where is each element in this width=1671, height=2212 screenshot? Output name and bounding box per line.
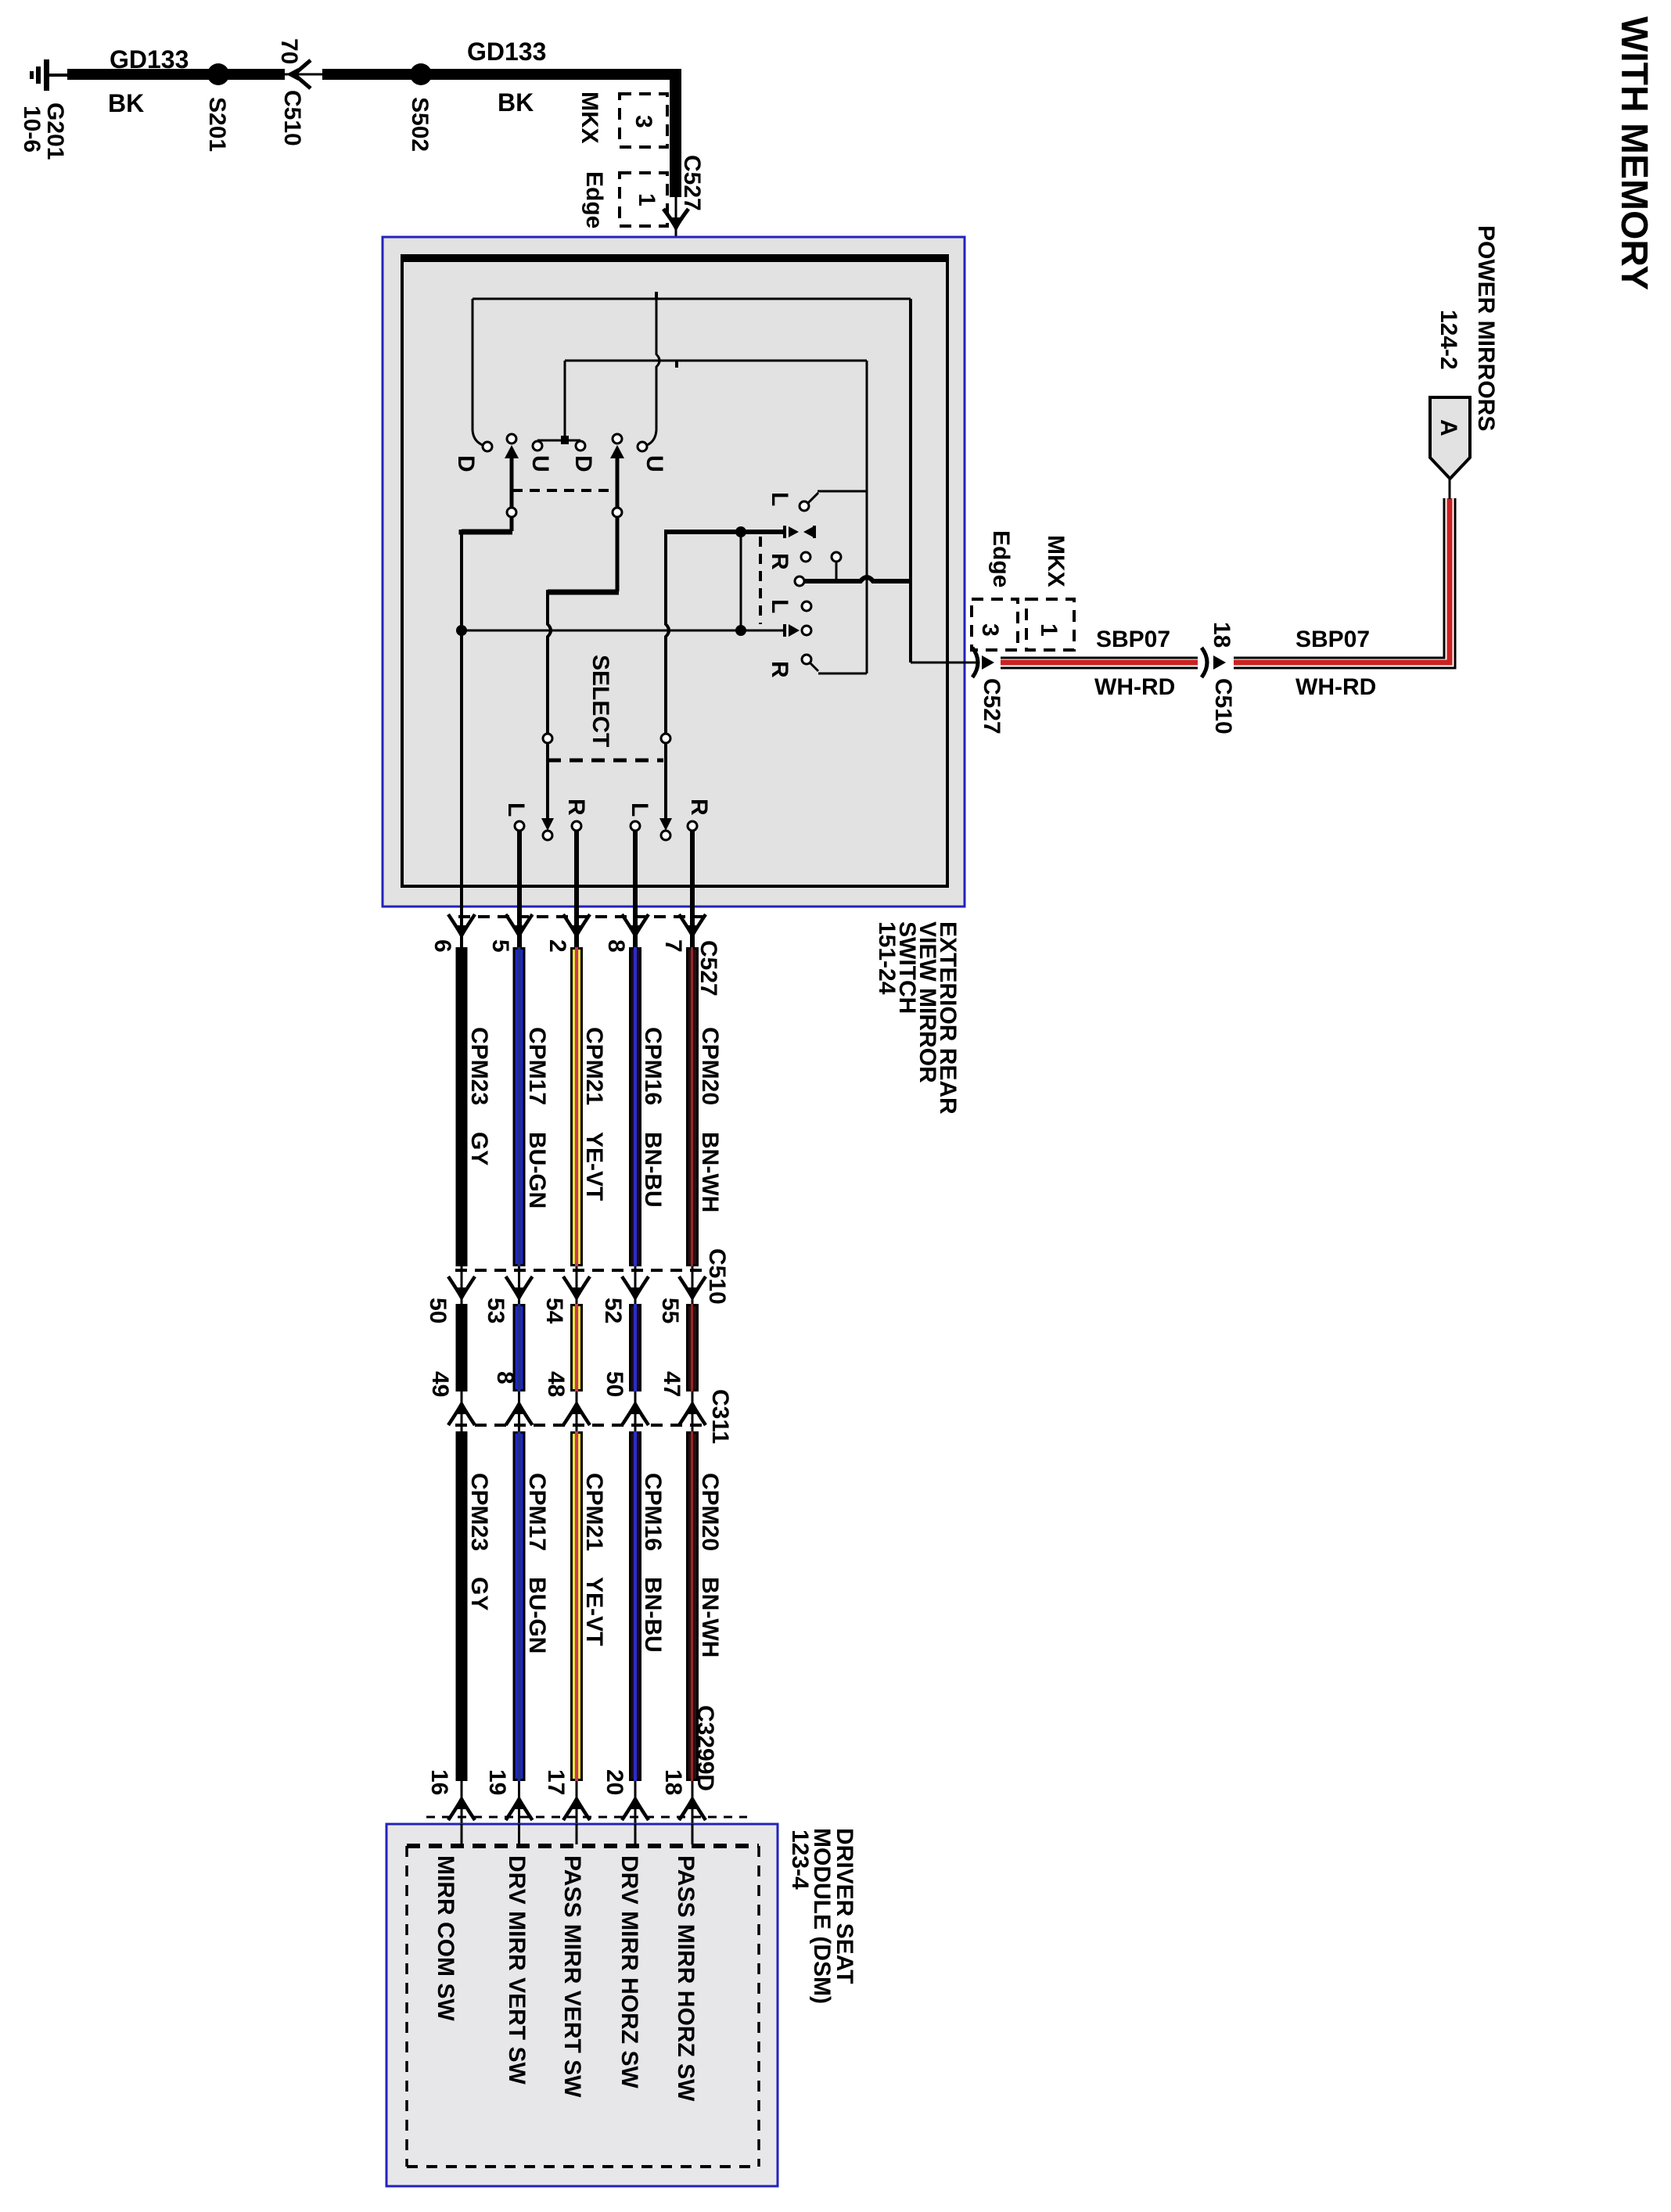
svg-text:R: R	[767, 553, 792, 570]
connector half box 1 (Edge)	[620, 173, 667, 226]
connector C311 row	[461, 1391, 463, 1431]
svg-text:POWER MIRRORS: POWER MIRRORS	[1473, 225, 1499, 431]
svg-text:CPM16: CPM16	[640, 1027, 666, 1105]
svg-text:47: 47	[659, 1371, 685, 1397]
svg-text:L: L	[503, 803, 529, 817]
svg-text:SBP07: SBP07	[1295, 627, 1370, 652]
wire GD133 BK segment 1	[67, 69, 285, 80]
dashed gang link wiperA-wiperB	[759, 537, 762, 624]
wire drop pin2	[574, 831, 579, 949]
svg-text:6: 6	[429, 939, 455, 953]
svg-text:DRV MIRR HORZ SW: DRV MIRR HORZ SW	[616, 1855, 642, 2088]
svg-text:49: 49	[427, 1371, 453, 1397]
svg-text:MIRR COM SW: MIRR COM SW	[433, 1855, 458, 2021]
connector half box 3 (Edge)	[972, 599, 1018, 650]
svg-text:16: 16	[426, 1769, 452, 1795]
connector C510 dashed	[455, 1269, 704, 1272]
svg-text:3: 3	[631, 115, 656, 128]
svg-text:BU-GN: BU-GN	[524, 1132, 550, 1208]
svg-text:R: R	[563, 799, 589, 816]
contact U driver-up	[533, 441, 542, 451]
wire stub pin19	[518, 1824, 520, 1844]
svg-text:70: 70	[276, 38, 302, 64]
svg-text:S201: S201	[204, 97, 230, 152]
wire right vertical 1108	[866, 361, 868, 673]
wire CPM21 YE-VT segment C	[572, 1433, 582, 1780]
svg-text:GY: GY	[466, 1132, 492, 1165]
wire CPM20 BN-WH segment C	[688, 1433, 698, 1780]
wire stub pin16	[461, 1824, 463, 1844]
svg-text:20: 20	[602, 1769, 627, 1795]
svg-text:151-24: 151-24	[874, 921, 900, 995]
wire link U-D fixed contacts	[537, 440, 580, 442]
wire CPM20 BN-WH segment B	[688, 1305, 698, 1391]
svg-text:Edge: Edge	[581, 171, 607, 228]
svg-text:2: 2	[544, 939, 570, 953]
connector arrows C527	[448, 914, 475, 937]
svg-text:CPM17: CPM17	[524, 1473, 550, 1551]
svg-text:L: L	[767, 492, 792, 506]
svg-text:53: 53	[483, 1298, 508, 1323]
switch pole 2 vertical motion	[613, 434, 622, 443]
wire CPM23 GY segment A	[456, 947, 468, 1266]
wire exit to C527	[911, 662, 979, 664]
wire right vertical 1164	[909, 299, 912, 663]
svg-text:MKX: MKX	[577, 92, 602, 144]
connector arrow C527	[663, 209, 688, 228]
wire CPM16 BN-BU segment B	[631, 1305, 641, 1391]
wire select pole left	[548, 590, 551, 734]
svg-text:YE-VT: YE-VT	[581, 1132, 607, 1201]
wire rail 1	[473, 298, 911, 300]
wire drop pin7	[690, 831, 695, 949]
switch pole 1 vertical motion	[507, 434, 516, 443]
wire common drop pin6	[460, 530, 463, 949]
svg-text:CPM20: CPM20	[697, 1027, 723, 1105]
wiper A thick	[664, 530, 785, 534]
wire CPM16 BN-BU segment C	[631, 1433, 641, 1780]
connector arrows C311	[448, 1402, 475, 1425]
svg-text:50: 50	[602, 1371, 627, 1397]
svg-text:C527: C527	[679, 155, 705, 211]
svg-text:17: 17	[543, 1769, 569, 1795]
svg-text:55: 55	[657, 1298, 683, 1323]
connector C3299D dashed	[426, 1816, 747, 1819]
svg-text:YE-VT: YE-VT	[581, 1577, 607, 1646]
wire GD133 BK segment 2	[322, 69, 681, 80]
connector C311 dashed	[455, 1424, 708, 1427]
wire CPM21 YE-VT segment B	[572, 1305, 582, 1391]
switch box outline	[383, 237, 965, 907]
bottom contact L pin8	[631, 821, 640, 831]
contact D driver-down	[483, 442, 492, 451]
wire corner down to C527	[670, 69, 681, 197]
svg-text:BK: BK	[498, 88, 534, 117]
contact L lower	[802, 601, 811, 611]
svg-text:8: 8	[492, 1371, 518, 1384]
contact D passenger-down	[576, 441, 585, 451]
bottom contact R pin2	[572, 821, 581, 831]
wire SBP07 WH-RD segment 2	[1234, 498, 1444, 658]
svg-text:CPM21: CPM21	[581, 1027, 607, 1105]
bottom contact R pin7	[688, 821, 697, 831]
svg-text:52: 52	[600, 1298, 626, 1323]
svg-text:124-2: 124-2	[1436, 310, 1461, 370]
svg-text:S502: S502	[407, 97, 433, 152]
svg-text:L: L	[767, 599, 792, 613]
svg-text:CPM17: CPM17	[524, 1027, 550, 1105]
wire into switch	[676, 197, 681, 361]
svg-text:CPM23: CPM23	[466, 1473, 492, 1551]
splice S502	[410, 63, 432, 85]
svg-text:C3299D: C3299D	[692, 1705, 718, 1791]
svg-text:C510: C510	[1210, 678, 1236, 734]
svg-text:SELECT: SELECT	[588, 655, 613, 747]
svg-text:10-6: 10-6	[19, 106, 45, 153]
svg-text:BN-BU: BN-BU	[640, 1132, 666, 1208]
wire CPM23 GY segment C	[456, 1431, 468, 1781]
svg-text:19: 19	[484, 1769, 510, 1795]
svg-text:MKX: MKX	[1043, 535, 1069, 587]
wire select pole right	[666, 530, 669, 734]
off-page connector A POWER MIRRORS	[1430, 397, 1470, 479]
svg-text:CPM16: CPM16	[640, 1473, 666, 1551]
contact R mid	[801, 552, 810, 562]
junction dot	[456, 625, 467, 636]
junction dot	[735, 625, 746, 636]
wire CPM21 YE-VT segment A	[572, 949, 582, 1266]
svg-text:123-4: 123-4	[787, 1830, 813, 1890]
svg-text:5: 5	[487, 939, 513, 953]
wire CPM16 BN-BU segment A	[631, 949, 641, 1266]
svg-text:GY: GY	[466, 1577, 492, 1611]
svg-text:C510: C510	[279, 90, 305, 146]
wire common horizontal	[462, 630, 785, 632]
svg-text:BN-WH: BN-WH	[697, 1577, 723, 1657]
wire drop pin8	[633, 831, 638, 949]
svg-text:U: U	[641, 455, 667, 472]
ground G201	[30, 59, 69, 91]
svg-text:PASS MIRR VERT SW: PASS MIRR VERT SW	[559, 1855, 585, 2098]
dashed gang link poles 1-2	[512, 489, 618, 492]
svg-text:SBP07: SBP07	[1096, 627, 1170, 652]
contact U passenger-up	[638, 442, 647, 451]
connector C510 inline symbol	[285, 74, 322, 76]
junction nub rail2 x865	[675, 360, 678, 368]
connector half box 3 (MKX)	[620, 94, 667, 147]
svg-text:C510: C510	[704, 1248, 730, 1305]
svg-text:BK: BK	[108, 89, 144, 117]
wire stub pin18	[692, 1824, 694, 1844]
svg-text:BN-WH: BN-WH	[697, 1132, 723, 1212]
svg-text:18: 18	[1209, 622, 1234, 648]
svg-text:CPM20: CPM20	[697, 1473, 723, 1551]
contact R lower	[802, 655, 811, 664]
svg-text:WITH MEMORY: WITH MEMORY	[1613, 16, 1655, 290]
svg-text:L: L	[627, 803, 652, 817]
junction nub rail1 x839	[655, 292, 658, 300]
moving contact R lower	[783, 624, 786, 637]
connector arrows C510	[448, 1277, 475, 1299]
wire rail 2	[565, 360, 867, 362]
svg-text:R: R	[686, 799, 712, 816]
svg-text:Edge: Edge	[988, 530, 1014, 587]
junction dot U-D link	[561, 436, 569, 444]
svg-text:18: 18	[660, 1769, 686, 1795]
svg-text:G201: G201	[42, 102, 68, 160]
wire stub to connector A	[1449, 478, 1451, 499]
svg-text:BU-GN: BU-GN	[524, 1577, 550, 1654]
svg-text:C527: C527	[979, 678, 1004, 734]
wire CPM20 BN-WH segment A	[688, 949, 698, 1266]
DSM box outline	[386, 1824, 778, 2186]
svg-text:1: 1	[1036, 623, 1062, 637]
connector arrows C3299D	[448, 1797, 475, 1820]
wire rail2 left drop	[564, 361, 566, 440]
svg-text:C311: C311	[707, 1389, 733, 1444]
wire drop pin5	[517, 831, 522, 949]
svg-text:D: D	[453, 455, 479, 472]
svg-text:WH-RD: WH-RD	[1094, 674, 1175, 700]
dashed gang link select	[548, 759, 663, 763]
wire stub pin17	[576, 1824, 578, 1844]
svg-text:C527: C527	[695, 940, 721, 996]
svg-text:CPM23: CPM23	[466, 1027, 492, 1105]
wire CPM17 BU-GN segment B	[514, 1305, 524, 1391]
wire SBP07 WH-RD segment 1	[1001, 657, 1198, 659]
svg-text:U: U	[527, 455, 553, 472]
svg-text:GD133: GD133	[110, 45, 189, 74]
wire rail1 left drop to contact D	[473, 299, 483, 445]
svg-text:WH-RD: WH-RD	[1295, 674, 1376, 700]
wire pole1 elbow to common	[462, 530, 512, 532]
svg-text:D: D	[570, 455, 596, 472]
svg-text:GD133: GD133	[467, 38, 546, 66]
svg-text:A: A	[1436, 419, 1461, 436]
svg-text:54: 54	[541, 1298, 567, 1324]
svg-text:PASS MIRR HORZ SW: PASS MIRR HORZ SW	[673, 1855, 699, 2102]
svg-text:1: 1	[634, 193, 659, 206]
svg-text:3: 3	[977, 623, 1003, 637]
svg-text:BN-BU: BN-BU	[640, 1577, 666, 1653]
connector arrow C510	[1202, 648, 1207, 677]
DSM inner dashed box	[407, 1844, 759, 1848]
svg-text:R: R	[767, 661, 792, 678]
wire drop to contact U passenger	[647, 299, 659, 445]
connector C527 bottom dashed	[458, 915, 704, 918]
junction dot	[735, 526, 746, 537]
contact L upper right	[800, 501, 809, 511]
wire CPM23 GY segment B	[456, 1304, 468, 1391]
wire link	[740, 532, 742, 630]
splice S201	[207, 63, 229, 85]
wire CPM17 BU-GN segment A	[514, 949, 524, 1266]
switch inner box	[402, 256, 947, 886]
wiper B thick	[795, 576, 804, 586]
svg-text:DRV MIRR VERT SW: DRV MIRR VERT SW	[504, 1855, 530, 2085]
svg-text:7: 7	[660, 939, 686, 953]
connector C3299D row	[461, 1781, 463, 1846]
connector half box 1 (MKX)	[1026, 599, 1074, 650]
wire CPM17 BU-GN segment C	[514, 1433, 524, 1780]
svg-text:48: 48	[543, 1371, 569, 1397]
wire pole2 elbow	[548, 590, 619, 595]
svg-text:50: 50	[425, 1298, 451, 1323]
connector C510 row	[461, 1266, 463, 1304]
svg-text:8: 8	[603, 939, 629, 953]
connector arrow C527 right	[972, 648, 978, 677]
svg-text:CPM21: CPM21	[581, 1473, 607, 1551]
wire stub pin20	[634, 1824, 637, 1844]
bottom contact L pin5	[515, 821, 524, 831]
